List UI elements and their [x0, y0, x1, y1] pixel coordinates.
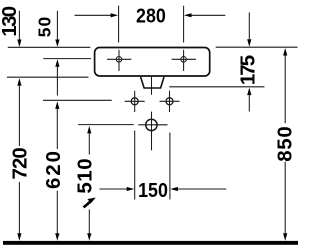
arrowhead 850 down: [283, 233, 287, 241]
svg-text:720: 720: [8, 147, 31, 179]
node 150 extension line left: [134, 131, 136, 200]
wire 510 dimension line lower: [88, 210, 90, 234]
arrowhead 620 down: [55, 233, 59, 241]
node supply reference line (620): [43, 99, 112, 101]
drain trapezoid: [141, 77, 164, 88]
arrowhead 50 down: [55, 40, 59, 48]
wire 720 dimension line lower: [18, 182, 20, 233]
drain connection circle: [146, 119, 157, 130]
arrowhead 150 right: [127, 187, 135, 191]
wire 175 lower arrow tail: [248, 95, 250, 111]
wire 175 upper arrow line: [248, 12, 250, 39]
wire 850 dimension line lower: [284, 162, 286, 234]
wire 850 dimension line upper: [284, 56, 286, 124]
arrowhead 850 up: [283, 48, 287, 56]
fixing hole cross left: [107, 50, 131, 71]
wire dimension line 280 right segment: [192, 14, 226, 16]
wire drain centerline upper: [151, 70, 153, 95]
svg-text:850: 850: [274, 126, 297, 162]
wire 50 lower arrow tail: [56, 67, 58, 96]
supply connection circle left: [125, 91, 145, 112]
arrowhead 150 left: [170, 187, 178, 191]
wire 620 dimension line lower: [56, 191, 58, 234]
node extension line left (280): [118, 6, 120, 43]
node rim reference line left: [8, 46, 91, 48]
wire dimension line 280 left segment: [75, 14, 112, 16]
node rim reference line right: [216, 46, 298, 48]
svg-text:130: 130: [0, 6, 21, 37]
arrowhead 280 left: [111, 13, 119, 17]
node fixing-hole reference line: [43, 58, 91, 60]
svg-text:150: 150: [138, 180, 168, 202]
wire dimension line 130 vertical: [18, 11, 20, 40]
svg-text:50: 50: [35, 16, 55, 37]
node lower reference line (175): [169, 86, 264, 88]
arrowhead 175 down: [247, 39, 251, 47]
wire drain crosshair horizontal: [138, 124, 167, 126]
arrowhead 280 right: [184, 13, 192, 17]
washbasin outline: [95, 48, 210, 77]
arrowhead 175 up: [247, 88, 251, 96]
arrowhead 510 up: [87, 126, 91, 133]
leader arrow diagonal: [84, 198, 96, 208]
svg-text:620: 620: [42, 151, 65, 189]
svg-text:280: 280: [136, 5, 166, 27]
wire 150 arrow line right: [178, 188, 227, 190]
fixing hole cross right: [172, 50, 196, 71]
node 150 extension line right: [169, 133, 171, 200]
arrowhead 720 up: [17, 78, 21, 86]
node extension line right (280): [183, 6, 185, 43]
node drain reference line (510): [78, 124, 134, 126]
wire drain centerline lower: [151, 112, 153, 151]
wire 150 arrow line left: [99, 188, 127, 190]
arrowhead 510 down: [87, 233, 91, 241]
wire 720 dimension line upper: [18, 86, 20, 146]
supply connection circle right: [160, 91, 180, 112]
wire 620 dimension line upper: [56, 109, 58, 149]
wire dimension line 50 vertical: [56, 11, 58, 40]
svg-text:510: 510: [73, 158, 96, 193]
arrowhead 50 up: [55, 59, 59, 66]
arrowhead 620 up: [55, 101, 59, 109]
svg-text:175: 175: [237, 55, 260, 85]
arrowhead 130 down: [17, 40, 21, 48]
wire 510 dimension line upper: [88, 133, 90, 154]
floor line: [3, 241, 298, 245]
arrowhead 720 down: [17, 233, 21, 241]
node basin-bottom reference line (720): [7, 76, 89, 78]
